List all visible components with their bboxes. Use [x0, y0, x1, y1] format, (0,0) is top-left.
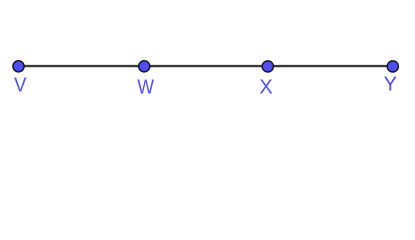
wire: [19, 65, 393, 67]
svg-text:X: X: [259, 76, 272, 98]
node W: [139, 61, 150, 72]
node Y: [387, 61, 398, 72]
svg-text:W: W: [137, 76, 154, 98]
svg-text:Y: Y: [384, 74, 397, 96]
node X: [262, 61, 273, 72]
svg-text:V: V: [14, 75, 26, 97]
node V: [13, 61, 24, 72]
